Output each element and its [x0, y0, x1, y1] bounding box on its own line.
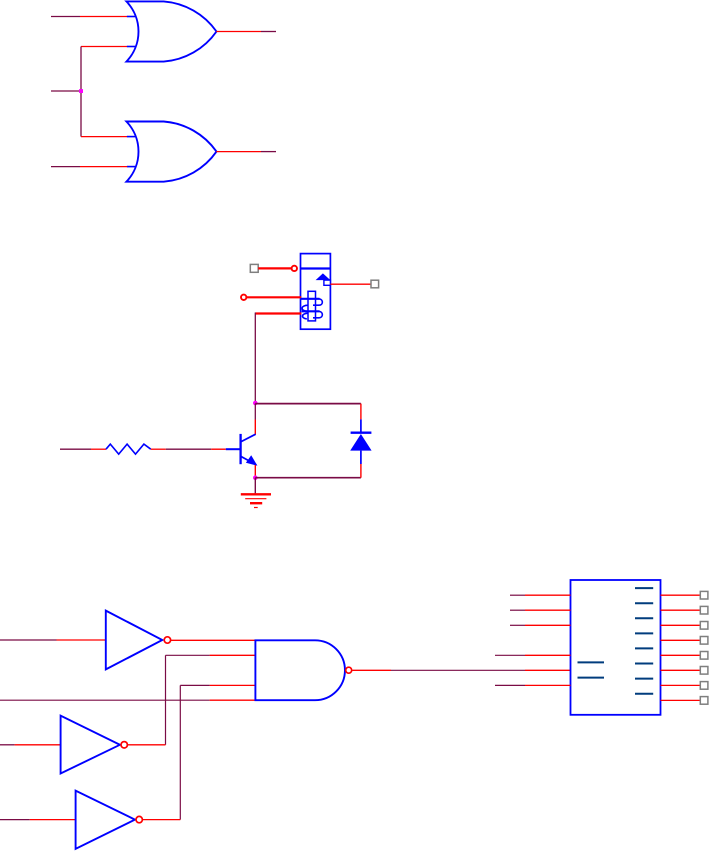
wire OR2 input 2	[51, 166, 127, 168]
wire inverter U4 input	[0, 744, 61, 746]
wire collector net horizontal	[255, 403, 361, 405]
relay coil core	[308, 291, 316, 321]
wire OR1 output	[216, 31, 276, 33]
terminal out 1	[700, 591, 708, 599]
wire OR2 output	[216, 151, 276, 153]
wire IC output 6	[661, 669, 701, 671]
wire NAND output to IC	[353, 669, 571, 671]
wire U5 output	[143, 819, 180, 821]
terminal out 3	[700, 622, 708, 630]
wire diode top vertical	[360, 404, 362, 433]
ground GND	[241, 478, 271, 508]
wire base resistor left	[60, 448, 106, 450]
wire IC input pin 6	[495, 684, 571, 686]
wire IC input pin 1	[510, 594, 571, 596]
relay armature arrow	[316, 273, 331, 280]
wire emitter net horizontal	[255, 477, 361, 479]
wire IC output 5	[661, 654, 701, 656]
relay K1 body	[301, 254, 331, 330]
wire IC input pin 2	[510, 609, 571, 611]
IC left pin labels	[578, 662, 605, 677]
wire stub into node	[51, 90, 82, 92]
wire OR1 input 2	[81, 46, 127, 48]
terminal out 5	[700, 652, 708, 660]
pin circle relay contact	[292, 266, 297, 271]
or-gate U1A	[126, 1, 216, 61]
terminal out 6	[700, 667, 708, 675]
or-gate U1B	[126, 122, 216, 182]
node junction 2	[253, 401, 258, 406]
wire AND input 3	[180, 685, 255, 819]
terminal out 8	[700, 697, 708, 705]
wire IC input pin 4	[495, 654, 571, 656]
inverter U4	[61, 716, 128, 774]
relay pin square	[324, 280, 331, 285]
wire vertical branch	[80, 47, 82, 137]
terminal out 4	[700, 637, 708, 645]
inverter U5	[76, 791, 143, 849]
wire AND input 2	[166, 655, 256, 745]
relay coil loops	[302, 299, 322, 319]
pin circle coil top	[241, 295, 246, 300]
and-gate U3 (4-input NAND)	[255, 640, 351, 700]
wire IC input pin 3	[510, 624, 571, 626]
terminal T1 (gray square, relay contact left)	[250, 264, 258, 272]
wire OR2 input 1	[81, 136, 127, 138]
wire diode bottom vertical	[360, 451, 362, 478]
wire coil bottom pin	[255, 313, 301, 404]
wire IC output 1	[661, 594, 701, 596]
wire IC output 7	[661, 684, 701, 686]
wire IC output 8	[661, 699, 701, 701]
terminal T2 (gray square right)	[371, 280, 379, 288]
wire IC output 2	[661, 609, 701, 611]
IC right pin labels	[635, 588, 653, 694]
wire resistor to base	[151, 448, 226, 450]
wire inverter U5 input	[0, 819, 76, 821]
wire IC output 3	[661, 624, 701, 626]
IC U6 body	[571, 580, 661, 715]
relay coil crossbar 1	[301, 298, 320, 300]
wire relay common out	[330, 283, 371, 285]
wire net A to OR1 input 1	[51, 16, 127, 18]
wire inverter U2 input	[0, 639, 106, 641]
resistor R1	[106, 444, 151, 454]
wire AND input 4 (long net)	[0, 699, 255, 701]
terminal out 7	[700, 682, 708, 690]
relay coil crossbar 2	[302, 310, 320, 312]
relay contact bar	[301, 267, 331, 269]
wire IC output 4	[661, 639, 701, 641]
wire U4 output	[128, 744, 166, 746]
inverter U2	[106, 611, 171, 670]
wire U2 out to AND input 1	[171, 639, 256, 641]
wire emitter down	[254, 465, 256, 478]
diode D1	[350, 433, 371, 451]
wire T1 to pin	[258, 267, 291, 269]
node junction 3	[253, 475, 258, 480]
terminal out 2	[700, 606, 708, 614]
wire coil top pin	[247, 296, 301, 298]
transistor Q1	[226, 434, 258, 466]
node junction 1	[79, 89, 83, 93]
wire collector vertical	[254, 404, 256, 435]
